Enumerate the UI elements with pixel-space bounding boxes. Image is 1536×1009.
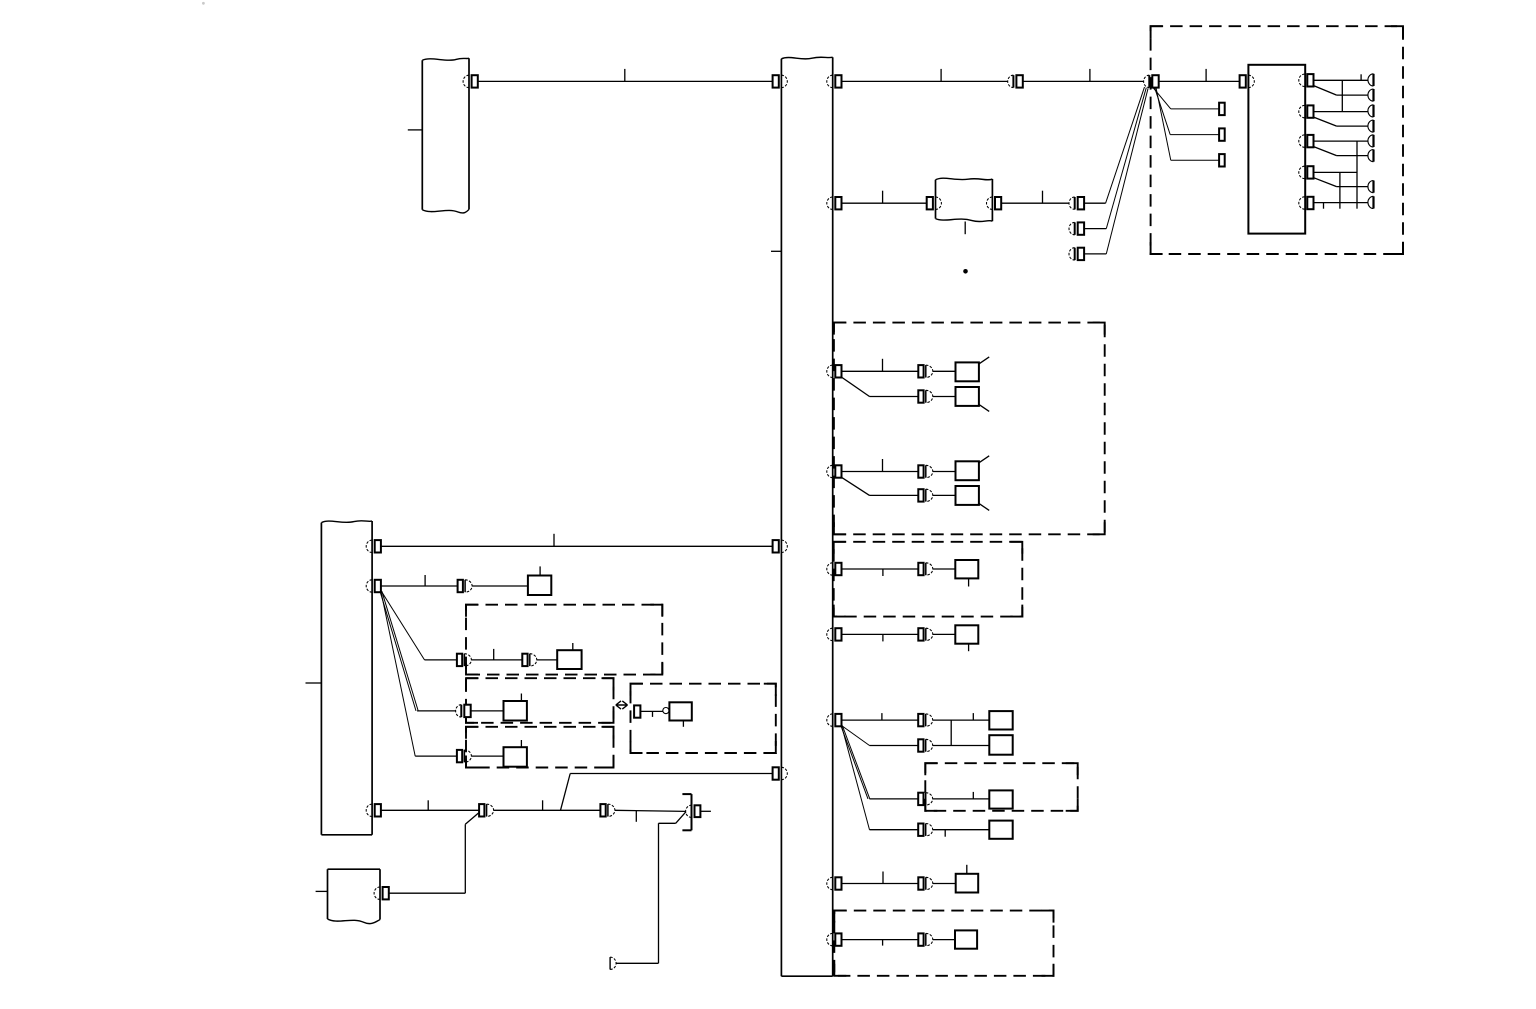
tick on row C wire: [972, 792, 974, 799]
wire pin5 to terminal T8: [1314, 202, 1368, 204]
wire connector to second lamp: [933, 396, 956, 398]
wire connector to fan lead row 253: [1084, 253, 1106, 255]
load box row F: [955, 625, 978, 643]
branch wire vertical drop: [658, 823, 660, 963]
wire connector to load row E: [933, 568, 956, 570]
wire trunk to connector row F: [842, 633, 919, 635]
trunk right pin (row H): [827, 877, 833, 889]
inline box right pin: [987, 197, 993, 209]
branch pin1 diagonal: [1314, 86, 1337, 96]
tick on pin1 wire: [1360, 74, 1362, 80]
lamp load box: [956, 362, 979, 381]
wire connector to second lamp: [933, 494, 956, 496]
wire mid-left box to trunk: [381, 545, 773, 547]
trunk right pin (bottom row): [827, 933, 833, 945]
connector pair row 756: [457, 750, 462, 762]
wire branch to terminal T4: [1337, 125, 1368, 127]
branch pin4 diagonal: [1314, 178, 1337, 187]
stub terminal 1 in top-right enclosure: [1219, 103, 1225, 115]
connector pair 2 row 810: [600, 804, 605, 816]
tick on lamp row wire: [882, 459, 884, 472]
fan lead 3 to lower connectors: [1106, 88, 1148, 254]
tick on lamp row wire: [882, 359, 884, 372]
tick on wire to control unit: [1205, 69, 1207, 82]
stub above load row 586: [539, 566, 541, 575]
wire fan connector to control unit: [1159, 80, 1240, 82]
connector pair row 228: [1074, 222, 1076, 234]
dot marker below inline box: [963, 269, 968, 274]
connector pair row B: [918, 739, 923, 751]
connector pair row 711: [460, 705, 462, 717]
dashed enclosure (bottom row): [834, 911, 1053, 976]
tick on row H wire: [882, 872, 884, 884]
control unit right pin 2: [1299, 105, 1305, 117]
control unit right pin 3: [1299, 135, 1305, 147]
inline connector pair (top row): [1012, 75, 1014, 87]
wire trunk to inline connector (top row): [842, 80, 1008, 82]
wire to connector row 660: [425, 659, 457, 661]
wire trunk to inline harness box: [842, 202, 927, 204]
wire number tick on top-left wire: [624, 69, 626, 82]
wire inline connector to fan connector: [1023, 80, 1144, 82]
wire pin3 to terminal T5: [1314, 140, 1368, 142]
control unit right pin 1: [1299, 74, 1305, 86]
branch diagonal to second lamp: [842, 377, 870, 396]
wire connector to lamp: [933, 471, 956, 473]
wire connector to load row C: [933, 798, 990, 800]
tick below row E wire: [882, 569, 884, 576]
bus link v1: [1341, 80, 1343, 111]
wire connector to load row F: [933, 633, 956, 635]
trunk right pin (row to small inline box): [827, 197, 833, 209]
trunk left pin (to top-left box wire): [773, 75, 779, 87]
load box row 711: [504, 701, 527, 721]
control unit right pin 5: [1299, 197, 1305, 209]
bulb terminal T8: [1372, 196, 1374, 208]
wire connector to load row 756: [471, 755, 503, 757]
wire connector to load row 660: [537, 659, 557, 661]
trunk right pin (top row): [827, 75, 833, 87]
wire stub right of bracket pin: [701, 810, 711, 812]
bulb terminal T1: [1372, 74, 1374, 86]
second lamp load box: [956, 387, 979, 406]
load box row 660: [557, 650, 581, 669]
fan lead to stub terminal 1: [1154, 88, 1171, 109]
wire trunk to connector (lamp row): [842, 471, 919, 473]
link between rows A and B: [950, 720, 952, 745]
stub below inline box: [964, 222, 966, 235]
mid-left box pin row 586: [366, 580, 372, 592]
stub tick on left of trunk: [771, 250, 781, 252]
stub tick on left of top-left box: [408, 129, 423, 131]
trunk left pin (lower wire): [773, 767, 779, 779]
wire stub terminal to load: [640, 710, 663, 712]
fan diagonal pair to row 711: [380, 591, 416, 711]
bulb terminal T7: [1372, 181, 1374, 193]
fan lead to stub terminal 3: [1156, 88, 1171, 160]
load box row C: [989, 790, 1012, 808]
wire connector to load row H: [933, 883, 956, 885]
second lamp load box: [956, 486, 979, 505]
connector pair (lamp row): [918, 365, 923, 377]
wire connector to load row 586: [472, 585, 528, 587]
stub below mating load: [682, 721, 684, 727]
wire connector to load bottom row: [933, 939, 955, 941]
connector pair row 253: [1074, 248, 1076, 260]
wire to stub terminal 2: [1170, 134, 1219, 136]
fan diagonal to row 660: [381, 591, 425, 660]
stub above load row 711: [520, 694, 522, 702]
tick on row A wire: [881, 713, 883, 720]
riser diagonal to row 810 connector: [465, 813, 478, 824]
trunk left pin (to mid-left box wire): [773, 540, 779, 552]
tick below row D wire: [944, 830, 946, 837]
wire connector to load row A: [933, 719, 990, 721]
dashed enclosure (mating side): [631, 684, 776, 753]
fan diagonal pair to row C: [841, 726, 868, 799]
load box row H: [956, 874, 979, 893]
connector pair (lamp row): [918, 465, 923, 477]
stub tick on left of bottom-left box: [316, 890, 328, 892]
connector pair row H: [918, 877, 923, 889]
fan splice connector at dashed-box edge: [1148, 75, 1150, 87]
tick on row A wire (right): [972, 713, 974, 720]
wire pin1 to terminal T1: [1314, 79, 1368, 81]
lamp stub diagonal (up): [979, 456, 989, 463]
dashed enclosure (top-right assembly): [1151, 26, 1403, 254]
wire to connector row B: [870, 745, 919, 747]
load box row 586: [528, 576, 551, 596]
bracket (mating connector housing): [691, 794, 693, 830]
wire connector to lamp: [933, 370, 956, 372]
trunk right pin (row E): [827, 563, 833, 575]
lamp stub diagonal (up): [979, 357, 989, 364]
small inline harness box (wavy ends): [936, 178, 993, 180]
bus link v2: [1356, 141, 1358, 209]
wire branch to connector (second lamp): [870, 396, 919, 398]
wire trunk to connector (lamp row): [842, 370, 919, 372]
trunk right pin (lamp group 1): [827, 365, 833, 377]
lamp load box: [956, 461, 979, 480]
connector pair row E: [918, 563, 923, 575]
harness segment box (mid-left), wavy top: [321, 521, 372, 523]
inline box left pin: [927, 197, 933, 209]
tick below row F wire: [882, 634, 884, 641]
fan diagonal to row 756: [381, 591, 415, 756]
wire connector to load row 711: [471, 710, 504, 712]
stub terminal 2 in top-right enclosure: [1219, 128, 1225, 140]
connector pair row C: [918, 793, 923, 805]
load box row E: [955, 560, 978, 578]
bottom-left box right pin: [374, 887, 380, 899]
dashed enclosure (row 756): [466, 727, 614, 768]
wire between connectors row 660: [471, 659, 522, 661]
wire connector to load row B: [933, 745, 990, 747]
connector pair row 203: [1074, 197, 1076, 209]
bulb terminal T6: [1372, 150, 1374, 162]
bracket pin connector: [686, 805, 692, 817]
load box row A: [989, 711, 1012, 729]
stub below load row F: [968, 644, 970, 652]
dashed enclosure (row 660): [466, 605, 662, 675]
stub terminal in mating enclosure: [634, 705, 640, 717]
wire to connector row 711: [417, 710, 456, 712]
dashed enclosure (right lamp groups): [834, 323, 1105, 535]
wire from top-left box to main trunk: [478, 80, 773, 82]
wire row 810 left segment: [381, 809, 479, 811]
bulb terminal T5: [1372, 135, 1374, 147]
wire to stub terminal 3: [1171, 159, 1219, 161]
connector pin on right edge of top-left box: [463, 75, 469, 87]
stub terminal 3 in top-right enclosure: [1219, 154, 1225, 166]
faint speck (top-left): [202, 2, 205, 5]
stub tick on left of mid-left box: [306, 682, 322, 684]
riser wire up to row 810: [464, 824, 466, 893]
wire branch to connector (second lamp): [870, 494, 919, 496]
trunk right pin (fan row): [827, 714, 833, 726]
stub below load row E: [968, 578, 970, 586]
load box row D: [989, 821, 1012, 839]
connector pair row 586: [458, 580, 463, 592]
trunk right pin (row F): [827, 628, 833, 640]
control unit box: [1248, 65, 1305, 234]
wire row 586 to connector: [381, 585, 458, 587]
wire trunk-left lower row: [570, 773, 772, 775]
connector pair 1 row 810: [479, 804, 484, 816]
main harness trunk (tall box), wavy top: [781, 57, 832, 59]
tick below bottom row wire: [882, 940, 884, 946]
tick on row 586 wire: [424, 575, 426, 586]
trunk right pin (lamp group 2): [827, 465, 833, 477]
stub above load row H: [966, 865, 968, 874]
drop diagonal from row 773 to row 810: [561, 774, 571, 811]
connector pair (second lamp): [918, 390, 923, 402]
connector pair bottom row: [918, 933, 923, 945]
wire trunk to connector row H: [842, 883, 919, 885]
double-headed arrow between enclosures: [616, 701, 628, 709]
tick below pin5 wire: [1323, 203, 1325, 209]
load box bottom row: [955, 930, 977, 948]
second lamp stub diagonal (down): [979, 404, 989, 411]
connector pair 1 row 660: [457, 654, 462, 666]
dashed enclosure (row 711): [466, 678, 614, 723]
wire branch to terminal T2: [1337, 94, 1368, 96]
fan lead to stub terminal 2: [1155, 88, 1170, 134]
wire connector to fan lead row 228: [1084, 228, 1106, 230]
dashed enclosure (row C): [925, 763, 1077, 811]
dashed enclosure (row E): [834, 542, 1023, 617]
branch wire horizontal: [659, 822, 676, 824]
branch wire bottom horizontal: [616, 962, 659, 964]
tick on wire after inline box: [1042, 191, 1044, 204]
tick on row-203 wire: [882, 191, 884, 204]
control unit left pin: [1240, 75, 1246, 87]
mid-left box pin row 546: [366, 540, 372, 552]
load box row B: [989, 735, 1012, 755]
wire trunk to connector bottom row: [842, 939, 919, 941]
tick below mating wire: [652, 711, 654, 717]
tick on wire before fan connector: [1089, 69, 1091, 82]
wire to stub terminal 1: [1171, 108, 1219, 110]
mid-left box pin row 810: [366, 804, 372, 816]
branch pin2 diagonal: [1314, 117, 1337, 126]
connector pair (second lamp): [918, 489, 923, 501]
wire pin2 to terminal T3: [1314, 111, 1368, 113]
connector pair 2 row 660: [522, 654, 527, 666]
load box row 756: [504, 747, 527, 767]
wire trunk to connector row A: [842, 719, 919, 721]
fan lead 1 to lower connectors: [1106, 87, 1145, 203]
wire row 810 right segment: [615, 810, 686, 811]
bulb terminal T3: [1372, 105, 1374, 117]
tick on row 810 wire: [427, 800, 429, 810]
second lamp stub diagonal (down): [979, 503, 989, 510]
stub above load row 660: [572, 643, 574, 650]
harness segment box (top-left), wavy ends: [422, 58, 469, 60]
harness segment box (bottom-left), wavy bottom: [328, 868, 381, 870]
tick on row 546 wire: [553, 534, 555, 547]
fan diagonal to row B: [842, 726, 870, 746]
tick below row 810 right: [635, 811, 637, 822]
wire branch to terminal T6: [1337, 155, 1368, 157]
control unit right pin 4: [1299, 166, 1305, 178]
bulb terminal T2: [1372, 89, 1374, 101]
connector pair row D: [918, 824, 923, 836]
tick on row 660 wire: [493, 649, 495, 660]
wire row 810 middle segment: [494, 809, 601, 811]
branch wire from bracket (diagonal): [676, 812, 686, 824]
bus link v3: [1339, 172, 1341, 208]
wire to connector row C: [870, 798, 919, 800]
wire pin4 stub: [1314, 171, 1357, 173]
wire connector to fan lead row 203: [1084, 202, 1106, 204]
tick on row 810 middle: [542, 800, 544, 810]
branch diagonal to second lamp: [842, 477, 870, 495]
branch pin3 diagonal: [1314, 147, 1337, 156]
wire to connector row 756: [415, 755, 457, 757]
wire branch to terminal T7: [1337, 186, 1368, 188]
wire to connector row D: [870, 829, 919, 831]
connector pair row F: [918, 628, 923, 640]
splice circle: [663, 708, 669, 714]
load box mating side: [669, 702, 691, 720]
wire inline box to connector row 203: [1001, 202, 1069, 204]
terminal at branch end: [609, 957, 611, 969]
connector pair row A: [918, 714, 923, 726]
wire connector to load row D: [933, 829, 990, 831]
tick on top-right wire: [940, 69, 942, 82]
bulb terminal T4: [1372, 120, 1374, 132]
wire bottom-left box to riser: [389, 892, 466, 894]
stub above load row 756: [520, 740, 522, 747]
fan diagonal to row D: [842, 726, 870, 830]
wire trunk to connector row E: [842, 568, 919, 570]
fan lead 2 to lower connectors: [1106, 88, 1146, 229]
